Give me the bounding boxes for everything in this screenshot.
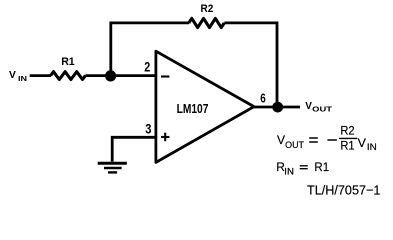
svg-text:R1: R1	[61, 56, 74, 68]
svg-text:3: 3	[145, 120, 151, 136]
svg-text:R2: R2	[340, 126, 354, 138]
svg-text:R2: R2	[201, 3, 214, 15]
svg-text:IN: IN	[284, 167, 294, 177]
svg-text:LM107: LM107	[177, 102, 209, 116]
svg-text:IN: IN	[18, 76, 27, 83]
svg-text:V: V	[358, 136, 367, 150]
svg-text:V: V	[9, 70, 16, 81]
svg-text:R1: R1	[340, 140, 354, 152]
svg-text:OUT: OUT	[312, 106, 333, 113]
svg-text:6: 6	[260, 90, 266, 105]
svg-text:R1: R1	[314, 160, 329, 174]
svg-text:IN: IN	[367, 142, 377, 152]
svg-text:V: V	[277, 133, 285, 147]
svg-text:TL/H/7057−1: TL/H/7057−1	[307, 182, 380, 197]
svg-text:V: V	[305, 101, 312, 112]
svg-text:2: 2	[144, 59, 150, 74]
svg-text:OUT: OUT	[285, 140, 304, 150]
